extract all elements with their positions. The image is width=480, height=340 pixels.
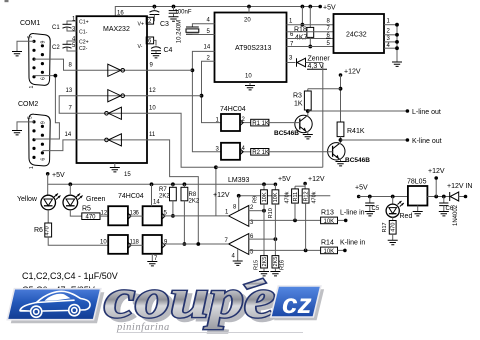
svg-text:4: 4 — [232, 254, 236, 260]
wire: MAX232 pin15 to ground — [114, 163, 116, 168]
svg-text:4: 4 — [72, 37, 76, 43]
wire: AT pin14 to MAX232 pin9 net, down to 74HC04 pin3 — [191, 51, 222, 151]
svg-text:R11: R11 — [293, 192, 299, 202]
resistor R7 2K2 — [159, 184, 176, 218]
wire: COM vertical to MAX232 pin13 and pin7 — [59, 96, 77, 114]
svg-text:14: 14 — [204, 45, 211, 51]
svg-text:2K2: 2K2 — [189, 199, 200, 205]
resistor R10 10K — [268, 190, 279, 256]
svg-text:R7: R7 — [159, 187, 167, 193]
svg-text:+5V: +5V — [52, 172, 65, 179]
svg-text:Zenner: Zenner — [308, 56, 331, 63]
svg-text:6: 6 — [41, 77, 47, 80]
node +5V divider — [274, 176, 291, 190]
svg-text:Red: Red — [400, 213, 413, 220]
diode D1 1N4002 — [447, 183, 473, 226]
logo blue box shadow — [11, 292, 105, 323]
svg-text:470k: 470k — [284, 191, 290, 203]
svg-text:13: 13 — [66, 88, 73, 94]
resistor R13 10K — [321, 210, 365, 225]
capacitor C2 — [52, 41, 77, 51]
svg-text:L-line out: L-line out — [412, 109, 441, 116]
IC U4D 74HC04 inverter — [128, 184, 168, 225]
wire: K-line out — [341, 138, 442, 145]
svg-text:C1: C1 — [52, 25, 60, 31]
svg-text:1: 1 — [29, 166, 35, 169]
wire: MAX232 internal row 4 — [77, 139, 147, 141]
svg-text:6: 6 — [41, 158, 47, 161]
svg-text:14: 14 — [65, 132, 72, 138]
resistor R4 1K — [337, 122, 365, 143]
svg-text:+5V: +5V — [323, 5, 336, 12]
IC U4B 74HC04 inverter — [216, 143, 246, 160]
wire: 24C32 pin5 row — [287, 46, 334, 48]
IC U4A 74HC04 inverter — [216, 106, 246, 131]
svg-text:R6: R6 — [34, 227, 43, 234]
wire: MAX232 internal row 3 — [77, 112, 147, 114]
svg-text:5: 5 — [28, 116, 34, 119]
ground Q1 emitter — [303, 135, 313, 139]
resistor R5 470 — [82, 206, 108, 221]
connector COM1 — [20, 20, 50, 89]
capacitor C1 — [52, 21, 77, 31]
svg-text:R14: R14 — [321, 240, 334, 247]
svg-text:R17: R17 — [382, 222, 388, 232]
svg-text:4: 4 — [242, 146, 246, 152]
svg-text:10.240M: 10.240M — [177, 20, 183, 43]
svg-text:8: 8 — [233, 205, 237, 211]
svg-text:5: 5 — [72, 43, 76, 49]
svg-text:7: 7 — [327, 26, 331, 32]
ground AT pin10 — [245, 86, 255, 90]
wire: +5V rail down to AT pin1 wire — [301, 7, 305, 27]
svg-text:2K5: 2K5 — [273, 257, 279, 267]
logo accent bar over e — [244, 278, 267, 289]
svg-text:R1 1K: R1 1K — [252, 121, 269, 127]
wire: COM1 pin5 to ground — [17, 41, 34, 51]
svg-text:5: 5 — [28, 36, 34, 39]
wire: +12V branch to R3 — [308, 88, 341, 90]
ground COM1 — [12, 52, 22, 56]
LED D4 Green — [63, 184, 106, 216]
logo cz box — [271, 286, 321, 317]
connector COM2 — [18, 101, 50, 169]
ground 78L05 — [413, 212, 423, 216]
svg-text:4: 4 — [207, 18, 211, 24]
svg-text:C2-: C2- — [79, 46, 88, 52]
svg-text:R8: R8 — [189, 192, 197, 198]
wire: COM1 to MAX232 pin 8 — [34, 59, 77, 70]
wire: comparator A in- (pin2) — [249, 209, 266, 213]
svg-text:R2 1K: R2 1K — [252, 150, 269, 156]
ground LM393 pin4 — [233, 261, 243, 265]
wire: L-line out — [308, 109, 441, 116]
svg-text:C2: C2 — [52, 45, 60, 51]
resistor R15 2K5 — [254, 256, 268, 272]
svg-text:74HC04: 74HC04 — [118, 193, 144, 200]
svg-text:R12: R12 — [303, 191, 309, 201]
logo car — [20, 291, 90, 317]
wire: comparator B in+ (pin5) to R14 — [249, 249, 321, 253]
svg-text:V+: V+ — [138, 22, 145, 28]
svg-text:470: 470 — [45, 226, 51, 235]
svg-text:1: 1 — [29, 86, 35, 89]
ground 24C32 — [392, 62, 402, 66]
ground COM2 — [12, 131, 22, 135]
LED D4 Red — [386, 197, 412, 221]
svg-text:C1+: C1+ — [79, 20, 89, 26]
node +5V power rail — [355, 185, 408, 199]
svg-text:8: 8 — [69, 63, 73, 69]
svg-text:COM1: COM1 — [20, 20, 40, 27]
resistor R6 470 — [34, 223, 108, 246]
ground for C4 — [151, 54, 161, 58]
wire: COM2 pin5 to ground — [17, 122, 34, 131]
node +12V right — [428, 168, 445, 197]
svg-text:14: 14 — [153, 200, 160, 206]
transistor Q2 BC546B — [328, 143, 371, 164]
svg-text:R13: R13 — [321, 210, 334, 217]
svg-text:470: 470 — [391, 223, 397, 232]
wire: zener down to comparator net — [322, 63, 324, 168]
wire: MAX232 pin12 right — [147, 95, 202, 97]
wire: comparator B output to 74HC04 pin9 — [162, 242, 229, 246]
svg-text:10K: 10K — [324, 249, 335, 255]
ground C6 — [439, 212, 449, 216]
svg-text:R10: R10 — [268, 208, 274, 218]
wire: AT pin1 to 24C32 pin8 — [287, 24, 334, 26]
wire: MAX232 pin9 right — [147, 69, 193, 71]
svg-text:BC546B: BC546B — [274, 130, 299, 137]
svg-text:cz: cz — [282, 288, 312, 319]
svg-text:1: 1 — [225, 210, 229, 216]
svg-text:74HC04: 74HC04 — [220, 106, 246, 113]
wire: AT pin6 to 24C32 pin7 — [287, 31, 334, 33]
svg-text:12: 12 — [101, 211, 108, 217]
capacitor C7 100nF — [169, 7, 192, 17]
svg-text:9: 9 — [150, 63, 154, 69]
svg-text:100nF: 100nF — [175, 10, 192, 16]
scan artifact top-left — [5, 0, 9, 2]
wire: AT pin20 to +5V rail — [248, 7, 250, 13]
svg-text:Yellow: Yellow — [17, 196, 38, 203]
wire: 24C32 right pins to ground bus — [384, 23, 399, 62]
logo underline — [118, 332, 303, 334]
wire: MAX232 pin10 to LM393 comparator A output — [147, 113, 218, 216]
svg-text:+5V: +5V — [355, 185, 368, 192]
wire: MAX232 internal row 2 — [77, 95, 147, 97]
IC U3 24C32 — [326, 14, 391, 53]
logo blue box — [7, 289, 101, 320]
svg-text:20: 20 — [244, 18, 251, 24]
svg-text:12: 12 — [149, 88, 156, 94]
wire: AT pin10 to ground — [249, 82, 251, 86]
resistor R8 2K2 — [181, 184, 200, 246]
resistor R12 470k — [302, 189, 317, 251]
buffer U2A (R2 receiver) — [108, 64, 125, 76]
wire: MAX232 pin14 to COM2 — [42, 140, 77, 151]
logo cz box shadow — [274, 289, 324, 320]
svg-text:470: 470 — [86, 215, 97, 221]
svg-text:1: 1 — [72, 17, 76, 23]
wire: AT pin7 to 24C32 pin6 — [287, 38, 334, 40]
buffer U2C (T2 driver) — [105, 107, 122, 119]
svg-text:78L05: 78L05 — [407, 179, 427, 186]
resistor R18 4K7 — [294, 7, 314, 49]
IC U4E 74HC04 inverter — [108, 235, 136, 254]
resistor R17 470 — [382, 221, 397, 241]
wire: +5V rail to R7/R8/R9/R10 — [48, 182, 276, 186]
svg-text:470k: 470k — [311, 191, 317, 203]
svg-text:1N4002: 1N4002 — [453, 204, 459, 226]
svg-text:15: 15 — [124, 172, 131, 178]
svg-text:1: 1 — [387, 19, 391, 25]
ground for 100nF — [169, 17, 179, 21]
transistor Q1 BC546B — [274, 115, 312, 137]
svg-text:2K5: 2K5 — [262, 257, 268, 267]
ground Q2 emitter — [336, 162, 346, 166]
op-amp U2 MAX232 box — [65, 11, 157, 164]
resistor R3 1K — [293, 89, 311, 116]
svg-text:1: 1 — [289, 19, 293, 25]
node +12V LM393 supply — [213, 192, 330, 211]
+5V top rail — [115, 5, 336, 17]
svg-text:R5: R5 — [82, 206, 91, 213]
svg-text:3: 3 — [289, 56, 293, 62]
capacitor C5 — [365, 197, 380, 213]
svg-text:10K: 10K — [324, 219, 335, 225]
capacitor C4 — [151, 40, 172, 54]
resistor R2 1K — [240, 149, 333, 157]
wire: MAX232 pin11 down to LM393 comparator B output — [147, 140, 199, 244]
svg-text:R9: R9 — [253, 196, 259, 203]
LED D3 Yellow — [17, 194, 61, 224]
wire: 78L05 input from +12V node — [427, 195, 449, 199]
svg-text:COM2: COM2 — [18, 101, 38, 108]
wire: comparator A in+ (pin3) to R13 — [249, 219, 321, 223]
resistor R1 1K — [240, 119, 300, 127]
ground MAX232 pin15 — [110, 168, 132, 179]
svg-text:11: 11 — [149, 132, 156, 138]
op-amp U5B LM393 comparator — [225, 234, 255, 261]
svg-text:+12V IN: +12V IN — [447, 183, 473, 190]
svg-text:24C32: 24C32 — [346, 32, 367, 39]
resistor R9 10K — [253, 184, 268, 255]
svg-text:10: 10 — [149, 106, 156, 112]
crystal X1 10.240M — [177, 20, 215, 43]
svg-text:R18: R18 — [294, 27, 307, 34]
svg-text:+12V: +12V — [308, 176, 325, 183]
svg-text:K-line out: K-line out — [412, 138, 442, 145]
ground R17 — [388, 240, 398, 244]
ground C5 — [365, 212, 375, 216]
svg-text:7: 7 — [225, 238, 229, 244]
node +12V top — [339, 69, 361, 123]
capacitor C3 — [150, 7, 170, 29]
svg-text:10: 10 — [100, 240, 107, 246]
diode D2 Zenner 4,3V — [287, 56, 331, 71]
svg-text:9: 9 — [41, 41, 47, 44]
svg-text:2: 2 — [387, 29, 391, 35]
IC U6 78L05 — [407, 179, 427, 212]
wire: comparator B in- (pin6) — [249, 237, 277, 241]
node: rail junction dots — [153, 5, 313, 9]
svg-text:3: 3 — [387, 36, 391, 42]
op-amp U5A LM393 comparator — [225, 205, 254, 227]
IC U1 AT90S2313 — [204, 13, 295, 83]
ground 74HC04 pin7 — [147, 262, 157, 266]
svg-text:LM393: LM393 — [228, 177, 250, 184]
svg-text:K-line in: K-line in — [340, 240, 365, 247]
svg-text:9: 9 — [164, 240, 168, 246]
svg-text:8: 8 — [327, 19, 331, 25]
svg-text:R3: R3 — [293, 93, 302, 100]
svg-text:Green: Green — [86, 196, 106, 203]
svg-text:L-line in: L-line in — [340, 210, 365, 217]
svg-text:C1-: C1- — [79, 30, 88, 36]
svg-text:2: 2 — [250, 205, 254, 211]
node +5V LED rail — [46, 172, 65, 195]
wire: comparator A output to 74HC04 pin5 — [162, 215, 229, 217]
IC U4C 74HC04 inverter — [108, 193, 144, 225]
ground R16 — [270, 272, 280, 276]
svg-text:+12V: +12V — [428, 168, 445, 175]
svg-text:R16: R16 — [280, 260, 286, 270]
svg-text:10K: 10K — [262, 192, 268, 202]
svg-text:2K2: 2K2 — [159, 194, 170, 200]
svg-text:10: 10 — [245, 74, 252, 80]
svg-text:MAX232: MAX232 — [103, 26, 130, 33]
resistor R11 470k — [284, 186, 299, 220]
wire: MAX232 internal row 1 — [77, 69, 147, 71]
svg-text:+12V: +12V — [213, 192, 230, 199]
wire: COM1 pin6 to COM2 — [34, 74, 59, 139]
capacitor C6 — [439, 197, 454, 213]
svg-text:2: 2 — [207, 56, 211, 62]
ground R15 — [259, 272, 269, 276]
svg-text:C4: C4 — [164, 47, 173, 54]
svg-text:C3: C3 — [160, 21, 169, 28]
svg-text:1K: 1K — [294, 101, 303, 108]
wire: AT pin2 to MAX232 pin12 net, down to 74HC04 pin1 — [200, 61, 221, 122]
svg-text:8: 8 — [136, 240, 140, 246]
svg-text:BC546B: BC546B — [345, 157, 370, 164]
svg-text:3: 3 — [72, 27, 76, 33]
IC U4F 74HC04 inverter — [128, 235, 168, 262]
resistor R16 2K5 — [272, 256, 286, 272]
resistor R14 10K — [321, 240, 366, 255]
svg-text:R41K: R41K — [347, 128, 365, 135]
svg-text:pininfarina: pininfarina — [116, 322, 170, 333]
svg-text:coupe: coupe — [104, 268, 275, 330]
svg-text:10K: 10K — [273, 192, 279, 202]
svg-text:+5V: +5V — [278, 176, 291, 183]
svg-text:7: 7 — [69, 106, 73, 112]
svg-text:C2+: C2+ — [79, 40, 89, 46]
svg-text:16: 16 — [117, 11, 124, 17]
svg-text:+12V: +12V — [344, 69, 361, 76]
buffer U2D (T1 driver) — [105, 134, 122, 146]
buffer U2B (R1 receiver) — [108, 90, 125, 102]
svg-text:AT90S2313: AT90S2313 — [235, 45, 272, 52]
wire: zener net horizontal to comparator A column — [216, 166, 323, 168]
svg-text:9: 9 — [41, 121, 47, 124]
node +12V divider — [295, 176, 325, 189]
svg-text:V-: V- — [138, 44, 143, 50]
